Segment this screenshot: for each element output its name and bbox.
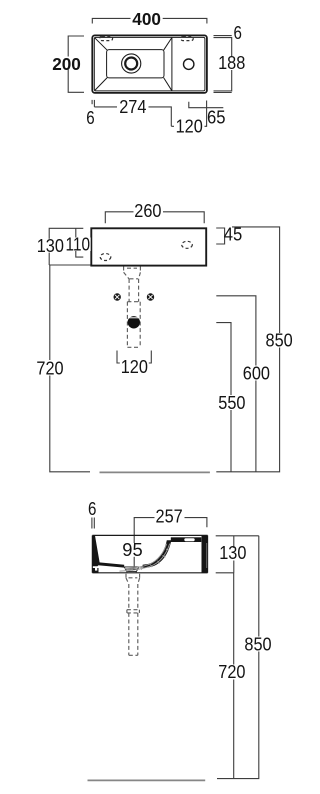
svg-text:720: 720 bbox=[36, 357, 63, 378]
svg-text:65: 65 bbox=[207, 107, 226, 128]
svg-text:6: 6 bbox=[88, 498, 96, 519]
svg-text:6: 6 bbox=[234, 22, 242, 43]
svg-text:257: 257 bbox=[156, 506, 183, 527]
svg-text:400: 400 bbox=[132, 9, 161, 29]
svg-text:130: 130 bbox=[37, 235, 64, 256]
svg-text:260: 260 bbox=[134, 200, 161, 221]
svg-text:110: 110 bbox=[66, 234, 91, 255]
svg-text:200: 200 bbox=[52, 54, 81, 74]
svg-text:850: 850 bbox=[244, 633, 271, 654]
svg-text:188: 188 bbox=[218, 52, 245, 73]
svg-text:850: 850 bbox=[266, 330, 293, 351]
svg-text:95: 95 bbox=[122, 539, 142, 560]
svg-text:550: 550 bbox=[218, 392, 245, 413]
svg-text:6: 6 bbox=[86, 107, 94, 128]
svg-text:720: 720 bbox=[218, 661, 245, 682]
svg-text:600: 600 bbox=[243, 363, 270, 384]
svg-text:130: 130 bbox=[219, 542, 246, 563]
svg-text:120: 120 bbox=[176, 115, 203, 136]
svg-text:274: 274 bbox=[119, 96, 146, 117]
svg-text:120: 120 bbox=[121, 356, 148, 377]
svg-text:45: 45 bbox=[224, 223, 243, 244]
